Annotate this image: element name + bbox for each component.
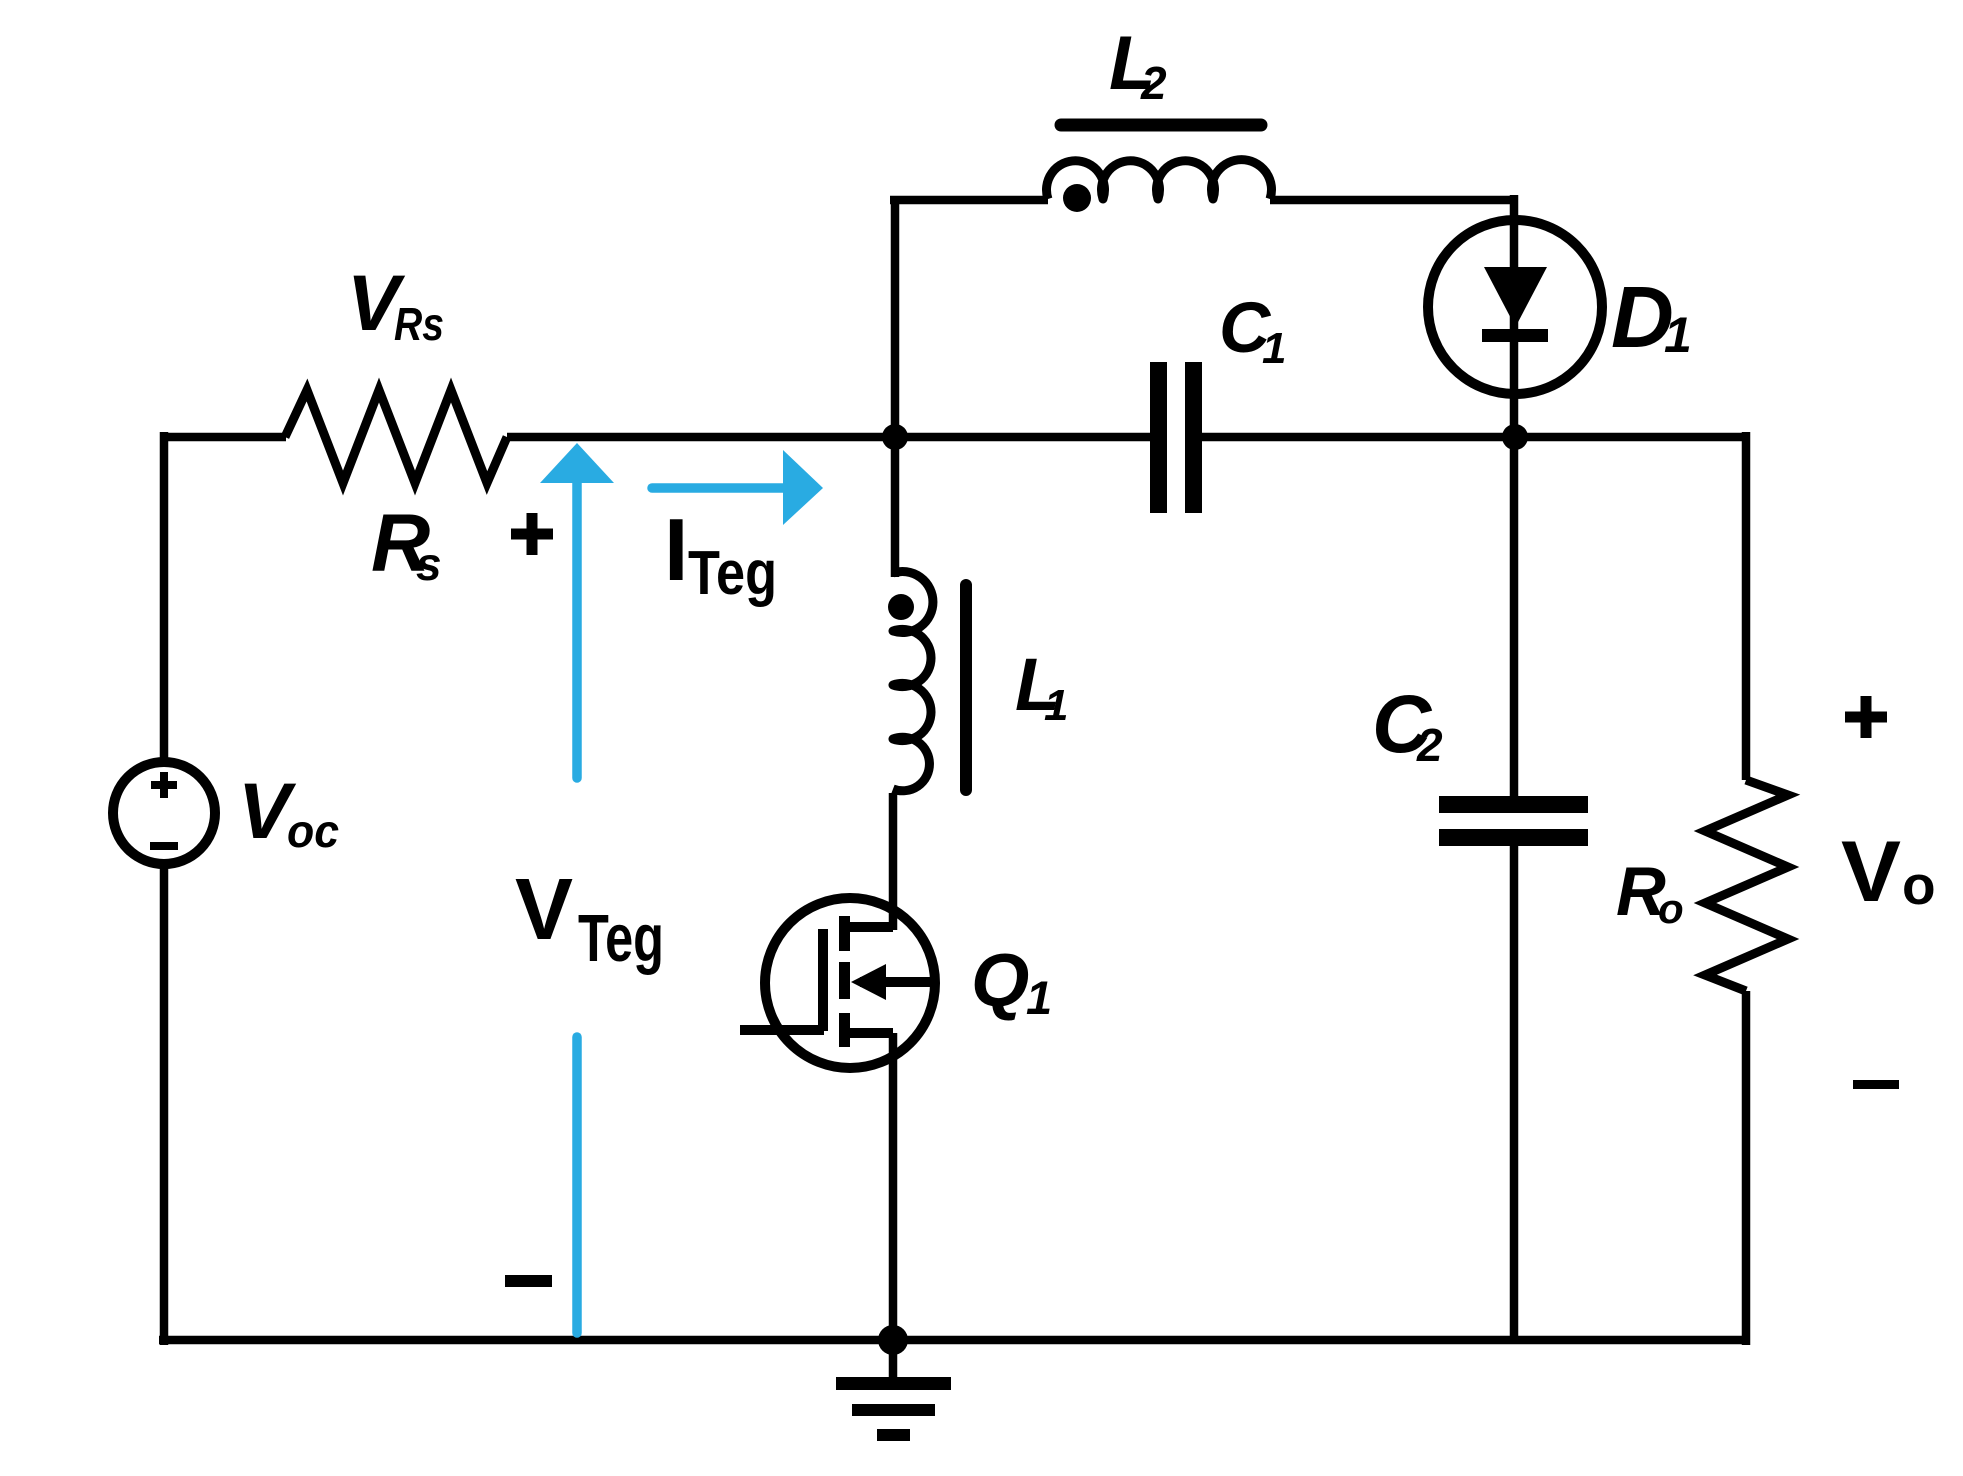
resistor Ro [1705,780,1788,991]
svg-text:Q: Q [971,938,1029,1022]
label Q1 [971,938,1052,1024]
capacitor C1 [1150,362,1202,513]
inductor L2 dot [1063,184,1091,212]
wire: C1 right plate to right corner through node B [1202,433,1746,442]
wire: node A down to L1 [891,437,900,577]
svg-text:1: 1 [1664,307,1692,363]
label D1 [1611,269,1692,366]
svg-text:1: 1 [1262,324,1286,373]
plus sign (Vo) [1845,696,1887,738]
svg-text:1: 1 [1044,681,1068,730]
wire: L1 to Q1 drain [889,793,898,930]
svg-text:o: o [1902,854,1936,916]
inductor L1 winding [893,572,933,791]
wire: right vertical lower (Ro to bottom rail) [1742,991,1751,1345]
label VRs [347,258,444,350]
capacitor C2 [1439,796,1588,846]
gate lead [740,1025,824,1035]
transistor Q1 (MOSFET) [740,898,935,1068]
voltage source Voc [113,762,215,864]
svg-text:s: s [416,538,442,590]
wire: vertical through D1 down to node B [1510,195,1519,437]
svg-text:Rs: Rs [394,298,444,350]
label L1 [1015,643,1068,730]
wire: right vertical upper (corner down to Ro) [1742,432,1751,780]
svg-text:oc: oc [287,805,339,857]
svg-text:V: V [1841,824,1901,920]
inductor L1 core bar [960,585,972,790]
label L2 [1109,21,1167,109]
inductor L1 dot [888,594,914,620]
svg-text:Teg: Teg [688,539,777,608]
wire: left branch top horizontal (source to Rs) [164,433,286,442]
drain tab [845,922,893,932]
wire: left vertical upper (top corner down to Voc) [160,432,169,763]
label C1 [1219,289,1286,373]
wire: node B down to C2 [1510,437,1519,796]
gate bar [818,929,828,1031]
annotation line VTeg lower segment (blue) [572,1037,582,1333]
label Rs [371,498,442,590]
label Vo [1841,824,1936,920]
annotation arrow VTeg (blue, up) [540,443,614,778]
svg-text:V: V [515,861,573,958]
label ITeg [664,500,777,608]
ground node junction dot [878,1325,908,1355]
label Ro [1616,853,1684,932]
wire: top rail right segment (L2 to corner above D1) [1270,196,1514,205]
wire: C2 to bottom rail [1510,846,1519,1340]
annotation arrow ITeg (blue, right) [652,450,823,525]
wire: Rs to node A [507,433,895,442]
node B junction dot [1502,424,1528,450]
inductor L2 core bar [1061,119,1261,132]
label C2 [1372,679,1443,771]
diode D1 [1428,220,1602,394]
wire: bottom rail [159,1336,1746,1345]
ground [836,1340,951,1441]
minus sign (Vo) [1853,1080,1899,1089]
plus sign (VTeg) [511,513,553,555]
svg-text:2: 2 [1140,57,1167,109]
svg-text:1: 1 [1026,971,1052,1024]
resistor Rs [285,390,507,483]
svg-text:I: I [664,500,688,599]
source tab [845,1028,893,1038]
minus sign (VTeg) [505,1275,552,1287]
wire: top rail left segment to L2 [890,196,1048,205]
svg-text:o: o [1658,885,1684,932]
svg-text:2: 2 [1416,719,1443,771]
wire: left vertical lower (Voc to bottom rail) [160,864,169,1345]
inductor L2 winding [1046,160,1271,199]
channel segments [839,916,850,951]
body line with arrow [860,977,934,987]
svg-text:Teg: Teg [578,901,664,976]
node A junction dot [882,424,908,450]
label VTeg [515,861,664,976]
label Voc [238,766,339,857]
wire: node A to C1 left plate [895,433,1150,442]
wire: node A up to top-left corner [891,200,900,442]
wire: Q1 source down to ground node [889,1033,898,1340]
